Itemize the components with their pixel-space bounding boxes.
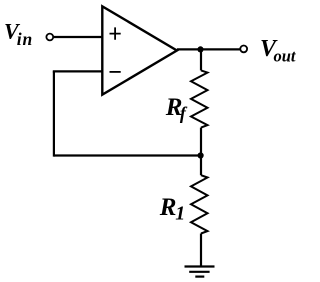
wire: op-amp output: [177, 48, 241, 50]
label Rf: [165, 94, 188, 123]
input terminal circle (Vin): [46, 34, 53, 41]
node: output junction: [197, 46, 203, 52]
wire: output node to Rf: [200, 50, 202, 71]
wire: feedback to - input: [53, 70, 103, 72]
node: feedback junction: [198, 152, 204, 158]
svg-text:1: 1: [175, 203, 185, 225]
svg-text:in: in: [17, 29, 33, 49]
output terminal circle (Vout): [240, 46, 247, 53]
wire: feedback vertical: [53, 71, 55, 156]
resistor Rf: [191, 70, 208, 127]
wire: Rf to feedback node: [200, 128, 202, 156]
wire: R1 to ground: [200, 234, 202, 267]
label Vin: [4, 19, 33, 50]
svg-text:out: out: [274, 46, 296, 65]
svg-text:R: R: [159, 194, 177, 221]
label Vout: [260, 36, 296, 65]
resistor R1: [191, 175, 208, 233]
wire: feedback node to R1: [200, 156, 202, 176]
ground: [185, 267, 215, 277]
op-amp: [102, 6, 177, 94]
label R1: [159, 194, 186, 225]
wire: Vin terminal to + input: [54, 36, 103, 38]
wire: feedback horizontal: [54, 154, 201, 156]
